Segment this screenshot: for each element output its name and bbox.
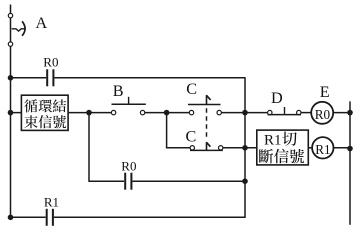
wire rung 2: rail to box junction (11, 112, 90, 114)
box: R1 cut-off-signal label (257, 130, 309, 165)
wire C to junction (221, 112, 245, 114)
svg-text:R0: R0 (43, 54, 58, 69)
pushbutton B (NO, momentary) (111, 97, 145, 115)
contact R0 (NO, rung 1) (47, 69, 53, 86)
wire rung 4 right (132, 180, 245, 182)
wire rung 5 right (54, 216, 245, 218)
contact R0 (NO, rung 4) (125, 173, 131, 190)
svg-text:B: B (113, 82, 124, 100)
wire rung 4 left (89, 180, 124, 182)
wire rung 5 left (11, 216, 46, 218)
svg-text:C: C (186, 80, 197, 98)
junction (rung 2 / vertical x=245) (242, 110, 248, 116)
svg-text:R0: R0 (315, 107, 331, 122)
junction (right rail / rung 3) (347, 146, 353, 152)
wire rung 3 start (167, 147, 191, 149)
junction (right rail / rung 2) (347, 110, 353, 116)
contact R1 (NO, rung 5) (47, 209, 53, 226)
wire junction to D (245, 112, 268, 114)
pushbutton D (NC, momentary) (268, 107, 302, 115)
junction (rung 2 / vertical to rung 3) (164, 110, 170, 116)
junction (rung 4 / vertical x=245) (242, 178, 248, 184)
contact C upper (NO with actuating arrow) (188, 95, 221, 115)
wire rung 2 to pushbutton B (89, 112, 112, 114)
relay coil R0 (311, 102, 333, 124)
vertical wire x=245 (244, 77, 246, 218)
junction (rung 2 / vertical to rung 4) (86, 110, 92, 116)
switch A (in-rail contact with terminals and spring-return actuator) (8, 13, 25, 46)
relay coil R1 (312, 137, 333, 158)
contact C lower (NC with actuating arrow) (190, 142, 223, 150)
svg-text:R1: R1 (44, 194, 59, 209)
wire C lower to box (223, 147, 257, 149)
wire between B and C (145, 112, 190, 114)
mechanical link C (dashed) (206, 108, 208, 137)
right power rail (349, 101, 351, 224)
left power rail (10, 5, 12, 220)
vertical wire x=89 down to rung 4 (88, 113, 90, 182)
junction (rung 3 / vertical x=245) (242, 145, 248, 151)
junction (left rail / rung 5) (8, 215, 14, 221)
vertical wire x=166.6 down to rung 3 (166, 113, 168, 149)
svg-text:C: C (186, 127, 197, 145)
wire coil R0 to right rail (333, 112, 350, 114)
wire rung 1 right (54, 77, 245, 79)
junction (left rail / rung 1) (8, 75, 14, 81)
svg-text:A: A (36, 14, 48, 32)
wire box to coil R1 (308, 147, 312, 149)
svg-text:D: D (271, 89, 283, 107)
svg-text:R1: R1 (315, 142, 330, 157)
wire coil R1 to right rail (334, 147, 351, 149)
svg-text:E: E (320, 83, 330, 101)
svg-text:R1: R1 (264, 133, 282, 149)
wire D to coil R0 (301, 112, 311, 114)
wire rung 1 left (11, 77, 47, 79)
junction (left rail / rung 2) (8, 110, 14, 116)
svg-text:R0: R0 (121, 159, 136, 174)
box: cycle-end-signal label (21, 95, 68, 130)
